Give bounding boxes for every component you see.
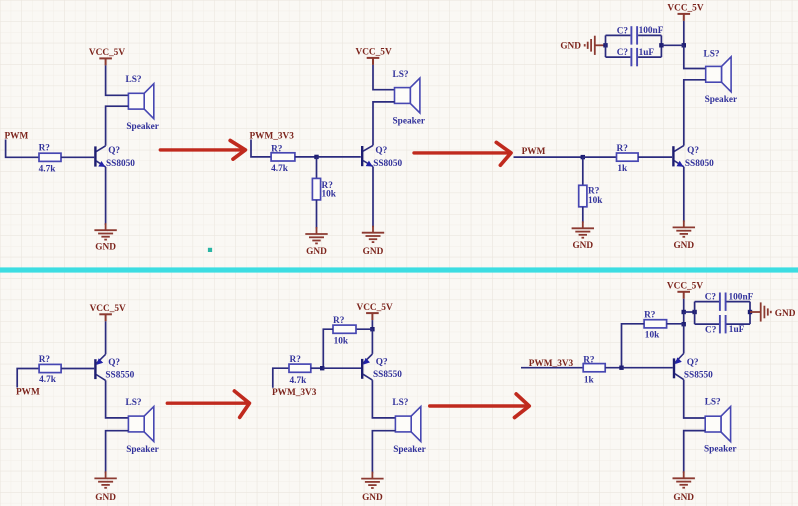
wire to C2 left plate <box>606 56 631 58</box>
speaker LS2 <box>395 78 420 113</box>
wire VCC rail to cap junction (circuit 3) <box>683 21 685 45</box>
resistor R5 10k body <box>579 185 587 207</box>
resistor R8 4.7k body <box>289 364 311 372</box>
resistor R1 4.7k body <box>39 153 61 161</box>
svg-text:1k: 1k <box>617 164 628 174</box>
svg-text:C?: C? <box>705 293 717 303</box>
ground symbol GND decoupling circuit 3 <box>585 36 606 55</box>
transistor Q1 (NPN) base bar <box>94 146 96 166</box>
power port bar VCC circuit 1 <box>99 58 112 65</box>
cap bank left rail (circuit 3) <box>605 35 607 57</box>
speaker LS6 <box>705 407 730 442</box>
transistor Q1 collector stroke <box>96 146 105 152</box>
junction cap bank left circuit 6 <box>692 310 696 314</box>
ground symbol GND pulldown circuit 2 <box>305 227 327 243</box>
wire base node to Q2 base <box>317 156 361 158</box>
transistor Q6 collector stroke <box>675 374 684 380</box>
wire speaker LS2 bottom pin to Q2 collector <box>373 102 395 145</box>
ground symbol GND circuit 5 <box>361 472 383 488</box>
svg-text:SS8550: SS8550 <box>684 370 713 380</box>
svg-text:10k: 10k <box>322 190 337 200</box>
svg-text:GND: GND <box>673 493 694 503</box>
speaker LS4 <box>128 407 153 442</box>
transistor Q3 collector stroke <box>674 146 684 152</box>
junction VCC-caps circuit 6 <box>682 310 686 314</box>
transistor Q5 (PNP) base bar <box>361 359 363 379</box>
svg-text:4.7k: 4.7k <box>39 165 57 175</box>
wire Q3 emitter to ground <box>683 167 685 222</box>
svg-text:VCC_5V: VCC_5V <box>90 304 126 314</box>
svg-text:LS?: LS? <box>392 398 408 408</box>
svg-text:VCC_5V: VCC_5V <box>356 48 392 58</box>
wire R9 to VCC junction (circuit 6) <box>667 323 684 325</box>
svg-text:4.7k: 4.7k <box>271 164 289 174</box>
svg-text:LS?: LS? <box>126 75 142 85</box>
red arrow 2 (between circuit 2 and 3) <box>414 142 511 165</box>
svg-text:R?: R? <box>333 316 345 326</box>
ground symbol GND circuit 3 <box>673 220 695 236</box>
junction base node circuit 6 <box>619 366 623 370</box>
ground symbol GND decoupling circuit 6 <box>750 302 771 321</box>
transistor Q2 collector stroke <box>363 145 373 151</box>
svg-text:VCC_5V: VCC_5V <box>89 48 125 58</box>
cap bank right rail (circuit 6) <box>749 302 751 325</box>
red arrow 4 (between circuit 5 and 6) <box>430 394 530 418</box>
svg-text:GND: GND <box>95 493 116 503</box>
svg-text:PWM: PWM <box>522 147 546 157</box>
svg-text:GND: GND <box>560 42 581 52</box>
wire rail to cap bank (circuit 6) <box>684 311 695 313</box>
junction cap bank right circuit 6 <box>748 310 752 314</box>
resistor R7 10k body <box>333 325 356 333</box>
transistor Q3 (NPN) base bar <box>672 146 674 166</box>
svg-text:10k: 10k <box>334 336 349 346</box>
junction cap bank left circuit 3 <box>603 43 607 47</box>
wire R4 to Q3 base <box>638 156 672 158</box>
svg-text:SS8550: SS8550 <box>373 370 402 380</box>
svg-text:R?: R? <box>39 144 51 154</box>
wire rail to speaker LS3 top pin <box>684 45 706 68</box>
ground symbol GND circuit 1 <box>94 223 116 239</box>
svg-text:10k: 10k <box>588 196 603 206</box>
svg-text:C?: C? <box>617 48 629 58</box>
wire VCC to speaker LS1 top pin <box>106 65 129 95</box>
wire R1 to Q1 base <box>61 156 94 158</box>
wire base node down to R3 <box>316 157 318 179</box>
svg-text:Q?: Q? <box>376 358 388 368</box>
junction base node circuit 5 <box>320 366 324 370</box>
svg-text:1uF: 1uF <box>729 325 745 335</box>
svg-text:R?: R? <box>39 355 51 365</box>
wire C1 right plate to cap bank right <box>638 34 661 36</box>
junction VCC-pullup circuit 6 <box>682 322 686 326</box>
junction base node circuit 2 <box>314 155 318 159</box>
svg-text:R?: R? <box>617 144 629 154</box>
svg-text:LS?: LS? <box>126 398 142 408</box>
svg-text:4.7k: 4.7k <box>39 375 57 385</box>
ground symbol GND circuit 6 <box>673 471 695 487</box>
svg-text:SS8050: SS8050 <box>373 159 402 169</box>
wire rail between junctions (circuit 6) <box>683 312 685 324</box>
wire base node to Q5 base <box>322 367 361 369</box>
transistor Q6 emitter stroke <box>675 354 684 363</box>
wire cap bank to VCC rail (circuit 3) <box>661 44 683 46</box>
svg-text:4.7k: 4.7k <box>290 376 308 386</box>
transistor Q6 emitter arrow <box>675 357 682 364</box>
junction cap bank right circuit 3 <box>659 43 663 47</box>
svg-text:GND: GND <box>362 493 383 503</box>
wire Q2 emitter to ground <box>372 167 374 228</box>
svg-text:R?: R? <box>271 144 283 154</box>
wire to C3 left plate <box>695 301 719 303</box>
transistor Q4 (PNP) base bar <box>94 359 96 379</box>
wire VCC junction to Q5 emitter <box>371 329 373 354</box>
svg-text:PWM: PWM <box>16 388 40 398</box>
resistor R10 1k body <box>583 364 605 372</box>
wire PWM_3V3 to R10 (circuit 6) <box>521 367 583 369</box>
wire speaker LS6 bottom pin to ground <box>684 431 706 474</box>
wire R7 to base node (circuit 5) <box>323 329 333 368</box>
svg-text:Q?: Q? <box>108 146 120 156</box>
ground symbol GND pulldown circuit 3 <box>572 221 594 237</box>
wire C3 right plate to cap bank right <box>727 301 751 303</box>
svg-text:SS8050: SS8050 <box>685 159 714 169</box>
junction VCC-caps circuit 3 <box>682 43 686 47</box>
svg-text:C?: C? <box>617 26 629 36</box>
svg-text:LS?: LS? <box>705 397 721 407</box>
transistor Q2 emitter arrow <box>366 161 373 167</box>
svg-text:C?: C? <box>705 326 717 336</box>
wire VCC to speaker LS2 top pin <box>373 65 395 90</box>
svg-text:R?: R? <box>583 356 595 366</box>
wire Q4 collector to speaker LS4 <box>106 380 129 418</box>
junction VCC-pullup circuit 5 <box>370 327 374 331</box>
transistor Q3 emitter arrow <box>677 161 684 167</box>
svg-text:GND: GND <box>95 243 116 253</box>
wire R6 to Q4 base <box>61 368 94 370</box>
wire PWM_3V3 up to R8 (circuit 5) <box>273 368 289 388</box>
resistor R2 4.7k body <box>271 153 295 161</box>
svg-text:SS8050: SS8050 <box>106 159 135 169</box>
svg-text:GND: GND <box>572 241 593 251</box>
svg-text:LS?: LS? <box>704 49 720 59</box>
wire speaker LS4 bottom pin to ground <box>106 431 129 474</box>
power port bar VCC circuit 4 <box>99 314 112 321</box>
red arrow 1 (between circuit 1 and 2) <box>160 141 245 160</box>
svg-text:VCC_5V: VCC_5V <box>357 303 393 313</box>
teal dot mark <box>208 248 212 252</box>
capacitor C1 100nF plates <box>631 26 637 44</box>
power port bar VCC circuit 6 <box>677 292 690 299</box>
wire VCC to Q4 emitter <box>105 321 107 354</box>
wire PWM up to R6 (circuit 4) <box>17 369 39 388</box>
wire C2 right plate to cap bank right <box>638 56 661 58</box>
wire PWM to node (circuit 3) <box>514 156 583 158</box>
svg-text:Q?: Q? <box>375 146 387 156</box>
wire R8 to base node (circuit 5) <box>311 367 322 369</box>
svg-text:Speaker: Speaker <box>126 445 159 455</box>
cap bank right rail (circuit 3) <box>660 35 662 57</box>
speaker LS1 <box>128 84 153 119</box>
svg-text:GND: GND <box>775 309 796 319</box>
transistor Q3 emitter stroke <box>674 161 684 167</box>
wire node to R4 (circuit 3) <box>583 156 617 158</box>
transistor Q1 emitter stroke <box>96 161 105 167</box>
svg-text:GND: GND <box>363 247 384 257</box>
wire VCC to pullup junction <box>371 320 373 329</box>
svg-text:GND: GND <box>673 241 694 251</box>
capacitor C3 100nF plates <box>720 293 726 311</box>
wire PWM_3V3 to R2 (circuit 2) <box>251 140 271 157</box>
svg-text:100nF: 100nF <box>639 26 664 36</box>
svg-text:SS8550: SS8550 <box>105 371 134 381</box>
cyan divider line <box>0 267 798 272</box>
wire C4 right plate to cap bank right <box>727 323 751 325</box>
svg-text:GND: GND <box>306 247 327 257</box>
wire VCC to cap junction (circuit 6) <box>683 299 685 312</box>
svg-text:Speaker: Speaker <box>704 445 737 455</box>
resistor R4 1k body <box>617 153 639 161</box>
speaker LS5 <box>395 407 420 442</box>
wire R3 to ground (circuit 2) <box>316 200 318 229</box>
svg-text:VCC_5V: VCC_5V <box>667 282 703 292</box>
svg-text:Speaker: Speaker <box>393 445 426 455</box>
wire R5 to ground (circuit 3) <box>582 207 584 223</box>
wire R10 to base node (circuit 6) <box>605 367 621 369</box>
wire PWM to R1 (circuit 1) <box>6 140 39 158</box>
transistor Q5 collector stroke <box>363 374 372 380</box>
wire speaker LS3 bottom pin to Q3 collector <box>684 80 706 146</box>
ground symbol GND circuit 4 <box>94 471 116 487</box>
wire Q1 emitter to ground <box>105 167 107 225</box>
wire speaker LS1 bottom pin to Q1 collector <box>106 106 129 146</box>
resistor R6 4.7k body <box>39 364 61 372</box>
wire rail to Q6 emitter <box>683 324 685 353</box>
transistor Q4 emitter arrow <box>96 358 103 365</box>
red arrow 3 (between circuit 4 and 5) <box>167 391 249 417</box>
svg-text:LS?: LS? <box>393 70 409 80</box>
svg-text:Speaker: Speaker <box>705 95 738 105</box>
wire node down to R5 (circuit 3) <box>582 157 584 185</box>
transistor Q1 emitter arrow <box>98 161 105 167</box>
ground symbol GND circuit 2 <box>362 226 384 242</box>
svg-text:Speaker: Speaker <box>393 117 426 127</box>
wire Q5 collector to speaker LS5 <box>372 380 395 418</box>
transistor Q5 emitter arrow <box>363 358 370 365</box>
power port bar VCC circuit 5 <box>366 313 379 320</box>
wire R2 to base node (circuit 2) <box>295 156 317 158</box>
wire to C1 left plate <box>606 34 631 36</box>
svg-text:1k: 1k <box>584 375 595 385</box>
resistor R3 10k body <box>312 178 320 200</box>
speaker LS3 <box>706 57 731 92</box>
wire pullup R7 to VCC junction <box>356 328 372 330</box>
svg-text:R?: R? <box>644 310 656 320</box>
svg-text:PWM_3V3: PWM_3V3 <box>250 132 295 142</box>
junction base node circuit 3 <box>581 155 585 159</box>
svg-text:VCC_5V: VCC_5V <box>667 4 703 14</box>
wire R9 to base node (circuit 6) <box>622 324 645 368</box>
cap bank left rail (circuit 6) <box>694 302 696 325</box>
wire speaker LS5 bottom pin to ground <box>372 431 395 474</box>
wire to C4 left plate <box>695 323 719 325</box>
svg-text:Speaker: Speaker <box>126 122 159 132</box>
power port bar VCC circuit 2 <box>367 58 380 65</box>
svg-text:PWM: PWM <box>5 132 29 142</box>
svg-text:PWM_3V3: PWM_3V3 <box>272 388 317 398</box>
svg-text:10k: 10k <box>645 330 660 340</box>
svg-text:Q?: Q? <box>108 358 120 368</box>
transistor Q2 emitter stroke <box>363 161 373 167</box>
capacitor C2 1uF plates <box>631 48 637 66</box>
wire Q6 collector to speaker LS6 <box>684 380 706 418</box>
resistor R9 10k body <box>644 320 667 328</box>
wire base node to Q6 base <box>622 367 673 369</box>
svg-text:Q?: Q? <box>687 358 699 368</box>
transistor Q4 collector stroke <box>96 375 105 381</box>
transistor Q4 emitter stroke <box>96 354 105 363</box>
transistor Q6 (PNP) base bar <box>673 358 675 378</box>
transistor Q5 emitter stroke <box>363 354 372 363</box>
power port bar VCC circuit 3 <box>678 14 691 21</box>
svg-text:Q?: Q? <box>687 146 699 156</box>
svg-text:R?: R? <box>290 355 302 365</box>
transistor Q2 (NPN) base bar <box>361 146 363 166</box>
capacitor C4 1uF plates <box>720 315 726 333</box>
